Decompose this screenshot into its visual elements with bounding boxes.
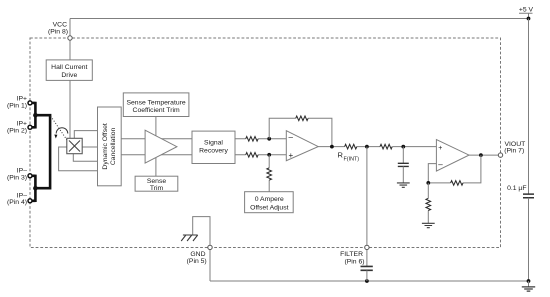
svg-text:(Pin 1): (Pin 1) — [7, 103, 27, 110]
svg-text:(Pin 5): (Pin 5) — [187, 258, 207, 265]
svg-text:Offset Adjust: Offset Adjust — [250, 204, 289, 211]
svg-text:Dynamic Offset: Dynamic Offset — [102, 123, 109, 169]
svg-text:(Pin 3): (Pin 3) — [7, 175, 27, 182]
svg-text:Sense Temperature: Sense Temperature — [126, 99, 185, 106]
svg-text:(Pin 7): (Pin 7) — [504, 148, 524, 155]
svg-text:0 Ampere: 0 Ampere — [255, 196, 284, 203]
svg-text:0.1 µF: 0.1 µF — [507, 185, 526, 192]
svg-text:(Pin 8): (Pin 8) — [48, 29, 68, 36]
svg-text:(Pin 6): (Pin 6) — [344, 258, 364, 265]
svg-text:+5 V: +5 V — [519, 7, 534, 14]
svg-text:Hall Current: Hall Current — [51, 64, 87, 71]
svg-text:Trim: Trim — [150, 185, 164, 192]
svg-text:–: – — [438, 160, 443, 169]
svg-text:Recovery: Recovery — [199, 147, 228, 154]
svg-text:+: + — [438, 145, 442, 152]
svg-text:IP–: IP– — [17, 168, 27, 175]
svg-text:(Pin 4): (Pin 4) — [7, 199, 27, 206]
svg-text:–: – — [289, 133, 294, 142]
svg-text:(Pin 2): (Pin 2) — [7, 128, 27, 135]
svg-text:Cancellation: Cancellation — [110, 127, 117, 165]
svg-text:Drive: Drive — [61, 72, 77, 79]
svg-text:VCC: VCC — [53, 22, 67, 29]
svg-text:F(INT): F(INT) — [344, 156, 360, 162]
svg-text:FILTER: FILTER — [340, 251, 363, 258]
svg-text:IP+: IP+ — [17, 120, 27, 127]
svg-text:Coefficient Trim: Coefficient Trim — [133, 107, 180, 114]
svg-text:+: + — [289, 151, 294, 160]
svg-text:Signal: Signal — [204, 139, 223, 146]
svg-text:Sense: Sense — [147, 178, 166, 185]
